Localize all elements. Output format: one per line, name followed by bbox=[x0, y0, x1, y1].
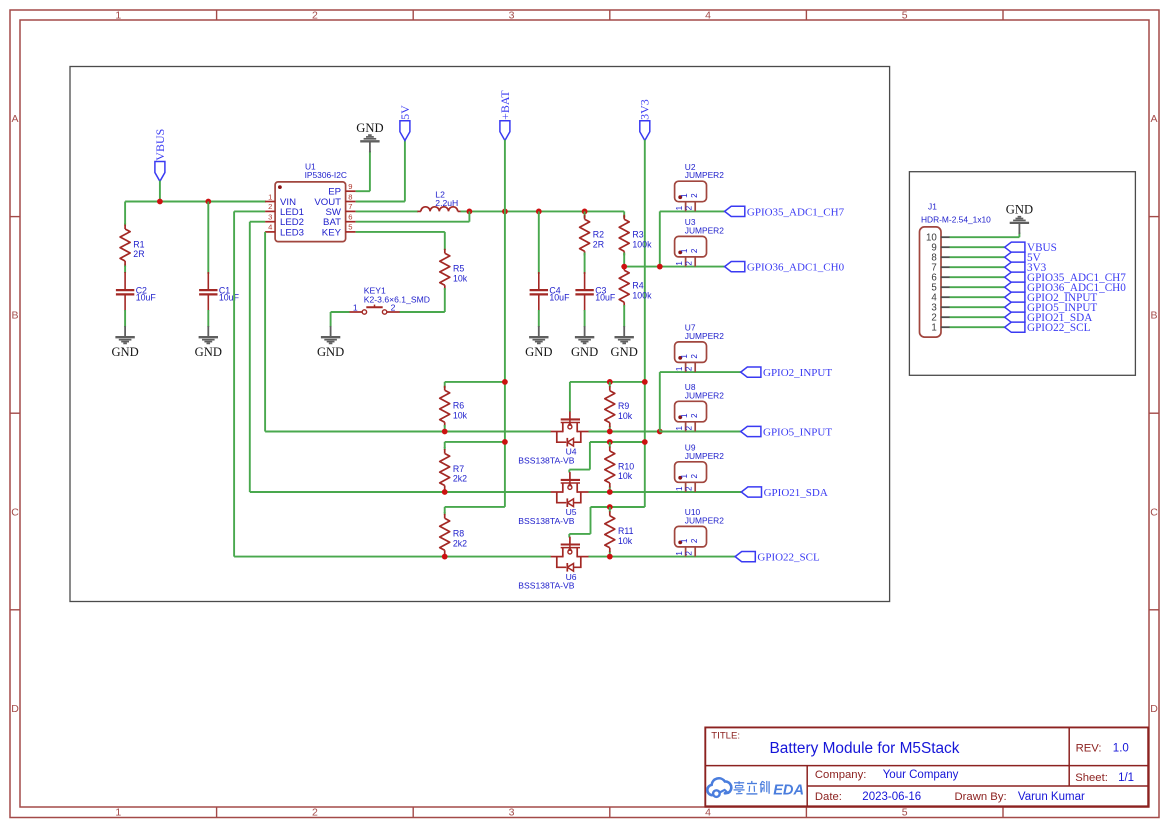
svg-text:2k2: 2k2 bbox=[453, 539, 467, 549]
svg-text:BSS138TA-VB: BSS138TA-VB bbox=[518, 516, 574, 526]
svg-text:Company:: Company: bbox=[815, 769, 867, 781]
J1 pins and wires bbox=[926, 233, 950, 334]
svg-text:4: 4 bbox=[705, 807, 711, 819]
wire LED2 net bbox=[250, 221, 265, 223]
svg-text:2: 2 bbox=[685, 205, 694, 210]
wire KEY to R5 bbox=[356, 231, 445, 233]
svg-text:A: A bbox=[1150, 113, 1157, 125]
node +BAT R7 junction bbox=[502, 439, 508, 445]
node R10 top junction bbox=[607, 439, 613, 445]
net label GPIO36_ADC1_CH0 bbox=[725, 262, 845, 274]
node VBUS-VIN junction bbox=[157, 199, 163, 205]
wire U4 drain rail bbox=[570, 381, 645, 383]
svg-text:1: 1 bbox=[680, 193, 689, 198]
svg-text:1: 1 bbox=[680, 473, 689, 478]
svg-text:2023-06-16: 2023-06-16 bbox=[862, 791, 921, 803]
ground below C1 bbox=[195, 326, 222, 359]
net label GPIO21_SDA bbox=[1005, 312, 1093, 324]
wire R8 top rail bbox=[445, 506, 505, 508]
svg-text:7: 7 bbox=[348, 202, 352, 211]
svg-text:3: 3 bbox=[268, 213, 272, 222]
resistor R8 bbox=[440, 507, 467, 557]
svg-text:Your Company: Your Company bbox=[883, 769, 959, 781]
svg-text:JUMPER2: JUMPER2 bbox=[685, 515, 724, 525]
svg-text:GND: GND bbox=[317, 345, 344, 359]
ground below KEY1 bbox=[317, 326, 344, 359]
svg-text:2: 2 bbox=[690, 354, 699, 359]
svg-text:10k: 10k bbox=[618, 536, 633, 546]
node 3V3 R10 junction bbox=[642, 439, 648, 445]
ground above J1 bbox=[1006, 203, 1033, 235]
svg-text:2k2: 2k2 bbox=[453, 474, 467, 484]
svg-text:1: 1 bbox=[675, 261, 684, 266]
power flag +BAT bbox=[498, 90, 512, 141]
svg-text:1: 1 bbox=[353, 303, 358, 313]
wire U6 gate path bbox=[590, 507, 592, 534]
svg-text:GND: GND bbox=[356, 121, 383, 135]
power flag 5V bbox=[398, 105, 412, 141]
svg-text:10uF: 10uF bbox=[219, 293, 240, 303]
svg-text:3: 3 bbox=[509, 807, 515, 819]
svg-text:Drawn By:: Drawn By: bbox=[955, 791, 1007, 803]
net label GPIO36_ADC1_CH0 bbox=[1005, 282, 1127, 294]
svg-text:1: 1 bbox=[675, 205, 684, 210]
wire R1 drop bbox=[124, 202, 126, 225]
svg-text:10k: 10k bbox=[618, 411, 633, 421]
svg-text:1: 1 bbox=[115, 10, 121, 22]
transistor U5 bbox=[518, 472, 589, 526]
svg-text:JUMPER2: JUMPER2 bbox=[685, 331, 724, 341]
node R11 top junction bbox=[607, 504, 613, 510]
svg-text:1: 1 bbox=[675, 486, 684, 491]
svg-text:6: 6 bbox=[348, 213, 352, 222]
svg-text:REV:: REV: bbox=[1076, 743, 1102, 755]
wire R10 top rail bbox=[590, 441, 645, 443]
wire LED1 net bbox=[234, 210, 265, 212]
svg-text:R10: R10 bbox=[618, 461, 634, 471]
svg-text:1: 1 bbox=[680, 538, 689, 543]
transistor U6 bbox=[518, 537, 589, 591]
node L2-BAT junction bbox=[467, 209, 473, 215]
wire R11 top rail bbox=[591, 506, 645, 508]
svg-text:C: C bbox=[1150, 506, 1158, 518]
jumper U2 bbox=[675, 162, 725, 212]
node R6 bottom junction bbox=[442, 429, 448, 435]
svg-text:5: 5 bbox=[902, 10, 908, 22]
wire BAT pin riser bbox=[356, 221, 470, 223]
svg-text:R1: R1 bbox=[133, 239, 144, 249]
svg-text:4: 4 bbox=[705, 10, 711, 22]
svg-text:GPIO2_INPUT: GPIO2_INPUT bbox=[763, 367, 832, 379]
svg-text:R2: R2 bbox=[593, 230, 604, 240]
node +BAT R6 junction bbox=[502, 379, 508, 385]
net label 5V bbox=[1005, 252, 1041, 264]
svg-text:R6: R6 bbox=[453, 401, 464, 411]
svg-text:2R: 2R bbox=[593, 239, 604, 249]
svg-text:Varun Kumar: Varun Kumar bbox=[1018, 791, 1085, 803]
svg-text:2: 2 bbox=[685, 486, 694, 491]
net label GPIO22_SCL bbox=[1005, 322, 1091, 334]
node rail +BAT junction bbox=[502, 209, 508, 215]
svg-text:JUMPER2: JUMPER2 bbox=[685, 225, 724, 235]
svg-text:EDA: EDA bbox=[773, 783, 804, 799]
node 3V3 drain rail junction bbox=[642, 379, 648, 385]
svg-text:JUMPER2: JUMPER2 bbox=[685, 170, 724, 180]
svg-text:JUMPER2: JUMPER2 bbox=[685, 390, 724, 400]
JLCEDA logo cloud bbox=[707, 778, 731, 797]
svg-text:2: 2 bbox=[690, 193, 699, 198]
wire R6 top rail bbox=[445, 381, 505, 383]
svg-text:R7: R7 bbox=[453, 464, 464, 474]
resistor R9 bbox=[605, 382, 633, 432]
svg-text:2: 2 bbox=[268, 202, 272, 211]
U1 left pins 1-4 bbox=[265, 192, 304, 238]
svg-text:100k: 100k bbox=[632, 290, 652, 300]
capacitor C2 bbox=[116, 266, 156, 327]
svg-text:VBUS: VBUS bbox=[153, 129, 167, 161]
wire U2-U3 vertical bbox=[659, 211, 661, 266]
wire J1 pin 7 bbox=[950, 266, 1005, 268]
svg-text:1: 1 bbox=[675, 551, 684, 556]
svg-text:C: C bbox=[11, 506, 19, 518]
svg-text:A: A bbox=[11, 113, 18, 125]
node R9 bottom junction bbox=[607, 429, 613, 435]
svg-text:2: 2 bbox=[312, 10, 318, 22]
main circuit boundary box bbox=[70, 67, 890, 602]
power flag VBUS bbox=[153, 129, 167, 182]
svg-text:R5: R5 bbox=[453, 264, 464, 274]
power flag 3V3 bbox=[638, 99, 652, 140]
wire J1 pin 8 bbox=[950, 256, 1005, 258]
svg-text:HDR-M-2.54_1x10: HDR-M-2.54_1x10 bbox=[921, 215, 991, 225]
svg-text:J1: J1 bbox=[928, 202, 937, 212]
inductor L2 bbox=[417, 189, 461, 211]
svg-text:GND: GND bbox=[195, 345, 222, 359]
node R10 bottom junction bbox=[607, 489, 613, 495]
svg-text:1: 1 bbox=[675, 425, 684, 430]
svg-text:10uF: 10uF bbox=[549, 293, 570, 303]
svg-text:10k: 10k bbox=[618, 471, 633, 481]
svg-text:GND: GND bbox=[525, 345, 552, 359]
svg-text:10uF: 10uF bbox=[136, 293, 157, 303]
svg-text:1: 1 bbox=[931, 323, 936, 334]
svg-text:2: 2 bbox=[690, 248, 699, 253]
svg-text:2: 2 bbox=[685, 425, 694, 430]
capacitor C1 bbox=[199, 272, 239, 327]
op-amp U1 IP5306-I2C body bbox=[275, 161, 347, 241]
svg-text:Battery Module for M5Stack: Battery Module for M5Stack bbox=[770, 740, 960, 757]
wire J1 pin 6 bbox=[950, 276, 1005, 278]
svg-text:1: 1 bbox=[680, 248, 689, 253]
U1 right pins 9-5 bbox=[314, 182, 355, 238]
node rail C3 junction bbox=[582, 209, 588, 215]
ground below C3 bbox=[571, 326, 598, 359]
wire U6 row right bbox=[589, 556, 736, 558]
svg-text:Date:: Date: bbox=[815, 791, 842, 803]
net label GPIO21_SDA bbox=[741, 487, 828, 499]
wire GPIO5 row right bbox=[660, 431, 741, 433]
wire +BAT vertical bbox=[504, 140, 506, 442]
net label GPIO35_ADC1_CH7 bbox=[1005, 272, 1127, 284]
wire J1 pin 1 bbox=[950, 326, 1005, 328]
svg-text:JUMPER2: JUMPER2 bbox=[685, 451, 724, 461]
resistor R4 bbox=[619, 266, 652, 327]
node C1 junction bbox=[205, 199, 211, 205]
svg-text:10k: 10k bbox=[453, 273, 468, 283]
resistor R10 bbox=[605, 442, 634, 492]
net label GPIO2_INPUT bbox=[1005, 292, 1098, 304]
svg-text:1: 1 bbox=[680, 413, 689, 418]
transistor U4 bbox=[518, 412, 589, 466]
svg-text:2: 2 bbox=[690, 413, 699, 418]
svg-text:GND: GND bbox=[111, 345, 138, 359]
node rail C4 junction bbox=[536, 209, 542, 215]
svg-text:2: 2 bbox=[685, 261, 694, 266]
svg-text:GPIO22_SCL: GPIO22_SCL bbox=[1027, 322, 1091, 334]
wire LED3 net bbox=[264, 232, 266, 432]
wire VOUT to 5V bbox=[356, 201, 405, 203]
net label VBUS bbox=[1005, 242, 1057, 254]
svg-text:1.0: 1.0 bbox=[1113, 743, 1129, 755]
svg-text:4: 4 bbox=[268, 223, 272, 232]
svg-text:2: 2 bbox=[685, 366, 694, 371]
ground below R4 bbox=[611, 326, 638, 359]
svg-text:R8: R8 bbox=[453, 529, 464, 539]
svg-text:3: 3 bbox=[509, 10, 515, 22]
net label GPIO22_SCL bbox=[735, 552, 820, 564]
jumper U3 bbox=[675, 217, 725, 267]
svg-text:3V3: 3V3 bbox=[638, 99, 652, 120]
node R7 bottom junction bbox=[442, 489, 448, 495]
svg-text:GND: GND bbox=[611, 345, 638, 359]
connector section boundary box bbox=[909, 172, 1135, 376]
wire L2 out rail bbox=[461, 210, 625, 212]
svg-text:GPIO35_ADC1_CH7: GPIO35_ADC1_CH7 bbox=[747, 206, 845, 218]
resistor R2 bbox=[580, 211, 605, 255]
svg-text:1: 1 bbox=[268, 192, 272, 201]
svg-text:Sheet:: Sheet: bbox=[1075, 772, 1108, 784]
svg-text:2: 2 bbox=[690, 538, 699, 543]
node R3-R4 junction bbox=[621, 264, 627, 270]
net label GPIO2_INPUT bbox=[741, 367, 833, 379]
JLCEDA logo characters bbox=[734, 781, 804, 799]
wire GPIO2 row bbox=[660, 371, 741, 373]
jumper U8 bbox=[675, 382, 725, 432]
wire J1 pin 3 bbox=[950, 306, 1005, 308]
svg-text:9: 9 bbox=[348, 182, 352, 191]
title block grid bbox=[705, 727, 1150, 807]
capacitor C3 bbox=[575, 253, 615, 328]
wire J1 pin 4 bbox=[950, 296, 1005, 298]
resistor R5 bbox=[440, 249, 468, 290]
svg-text:LED3: LED3 bbox=[280, 227, 304, 238]
wire R7 top rail bbox=[445, 441, 505, 443]
svg-text:GND: GND bbox=[571, 345, 598, 359]
resistor R7 bbox=[440, 442, 467, 492]
svg-text:B: B bbox=[1150, 310, 1157, 322]
wire U5 gate path bbox=[589, 442, 591, 470]
net label GPIO5_INPUT bbox=[741, 426, 833, 438]
svg-text:GPIO21_SDA: GPIO21_SDA bbox=[764, 487, 828, 499]
wire GPIO35 row bbox=[660, 210, 725, 212]
svg-text:1/1: 1/1 bbox=[1118, 772, 1134, 784]
svg-text:10uF: 10uF bbox=[595, 293, 616, 303]
wire U7-U8 vertical bbox=[659, 372, 661, 431]
svg-text:B: B bbox=[11, 310, 18, 322]
node GPIO36 vertical junction bbox=[657, 264, 663, 270]
resistor R3 bbox=[619, 211, 652, 266]
svg-text:GPIO5_INPUT: GPIO5_INPUT bbox=[763, 427, 832, 439]
svg-text:IP5306-I2C: IP5306-I2C bbox=[305, 170, 347, 180]
svg-text:10k: 10k bbox=[453, 410, 468, 420]
jumper U9 bbox=[675, 443, 725, 493]
wire U4 gate riser bbox=[569, 382, 571, 412]
jumper U10 bbox=[675, 507, 725, 557]
net label 3V3 bbox=[1005, 262, 1047, 274]
svg-text:1: 1 bbox=[675, 366, 684, 371]
svg-text:5: 5 bbox=[902, 807, 908, 819]
svg-text:8: 8 bbox=[348, 192, 352, 201]
svg-text:+BAT: +BAT bbox=[498, 90, 512, 120]
capacitor C4 bbox=[530, 211, 570, 327]
svg-text:R3: R3 bbox=[632, 230, 643, 240]
svg-text:TITLE:: TITLE: bbox=[711, 731, 740, 742]
svg-text:2: 2 bbox=[685, 551, 694, 556]
resistor R6 bbox=[440, 382, 468, 432]
svg-text:BSS138TA-VB: BSS138TA-VB bbox=[518, 580, 574, 590]
wire EP to ground riser bbox=[356, 190, 370, 192]
wire J1 pin10 to ground bbox=[950, 236, 1020, 238]
svg-text:D: D bbox=[11, 703, 19, 715]
svg-text:2: 2 bbox=[690, 473, 699, 478]
wire U5 row right bbox=[589, 491, 742, 493]
svg-text:5V: 5V bbox=[398, 105, 412, 120]
wire SW to L2 bbox=[356, 210, 418, 212]
wire J1 pin 5 bbox=[950, 286, 1005, 288]
wire C1 riser bbox=[207, 202, 209, 275]
svg-text:D: D bbox=[1150, 703, 1158, 715]
svg-text:GND: GND bbox=[1006, 203, 1033, 217]
ground above EP bbox=[356, 121, 383, 153]
svg-text:GPIO22_SCL: GPIO22_SCL bbox=[757, 552, 820, 564]
wire VIN rail bbox=[125, 201, 266, 203]
net label GPIO5_INPUT bbox=[1005, 302, 1098, 314]
net label GPIO35_ADC1_CH7 bbox=[725, 206, 845, 218]
svg-text:1: 1 bbox=[115, 807, 121, 819]
svg-text:2: 2 bbox=[391, 303, 396, 313]
jumper U7 bbox=[675, 323, 725, 373]
resistor R1 bbox=[120, 223, 145, 267]
switch KEY1 bbox=[349, 285, 430, 314]
wire KEY1 left to ground bbox=[331, 311, 350, 313]
svg-text:5: 5 bbox=[348, 223, 352, 232]
svg-text:KEY: KEY bbox=[322, 227, 342, 238]
ground below C4 bbox=[525, 326, 552, 359]
wire U4 row right bbox=[589, 431, 660, 433]
svg-text:K2-3.6×6.1_SMD: K2-3.6×6.1_SMD bbox=[364, 295, 430, 305]
wire J1 pin 2 bbox=[950, 316, 1005, 318]
svg-text:BSS138TA-VB: BSS138TA-VB bbox=[518, 455, 574, 465]
resistor R11 bbox=[605, 507, 634, 557]
svg-text:R9: R9 bbox=[618, 401, 629, 411]
svg-text:2: 2 bbox=[312, 807, 318, 819]
node R9 top junction bbox=[607, 379, 613, 385]
connector J1 HDR-M-2.54_1x10 bbox=[920, 202, 992, 338]
wire KEY1 right bbox=[400, 311, 445, 313]
svg-text:1: 1 bbox=[680, 354, 689, 359]
svg-text:R4: R4 bbox=[632, 281, 643, 291]
wire GPIO36 row bbox=[624, 266, 724, 268]
svg-text:GPIO36_ADC1_CH0: GPIO36_ADC1_CH0 bbox=[747, 262, 845, 274]
wire J1 pin 9 bbox=[950, 246, 1005, 248]
node R8 bottom junction bbox=[442, 554, 448, 560]
node GPIO5 vertical junction bbox=[657, 429, 663, 435]
svg-text:R11: R11 bbox=[618, 526, 634, 536]
svg-text:2R: 2R bbox=[133, 249, 144, 259]
wire 3V3 vertical bbox=[644, 140, 646, 507]
node R11 bottom junction bbox=[607, 554, 613, 560]
svg-text:100k: 100k bbox=[632, 239, 652, 249]
wire VBUS stem bbox=[159, 181, 161, 202]
ground below C2 bbox=[111, 326, 138, 359]
